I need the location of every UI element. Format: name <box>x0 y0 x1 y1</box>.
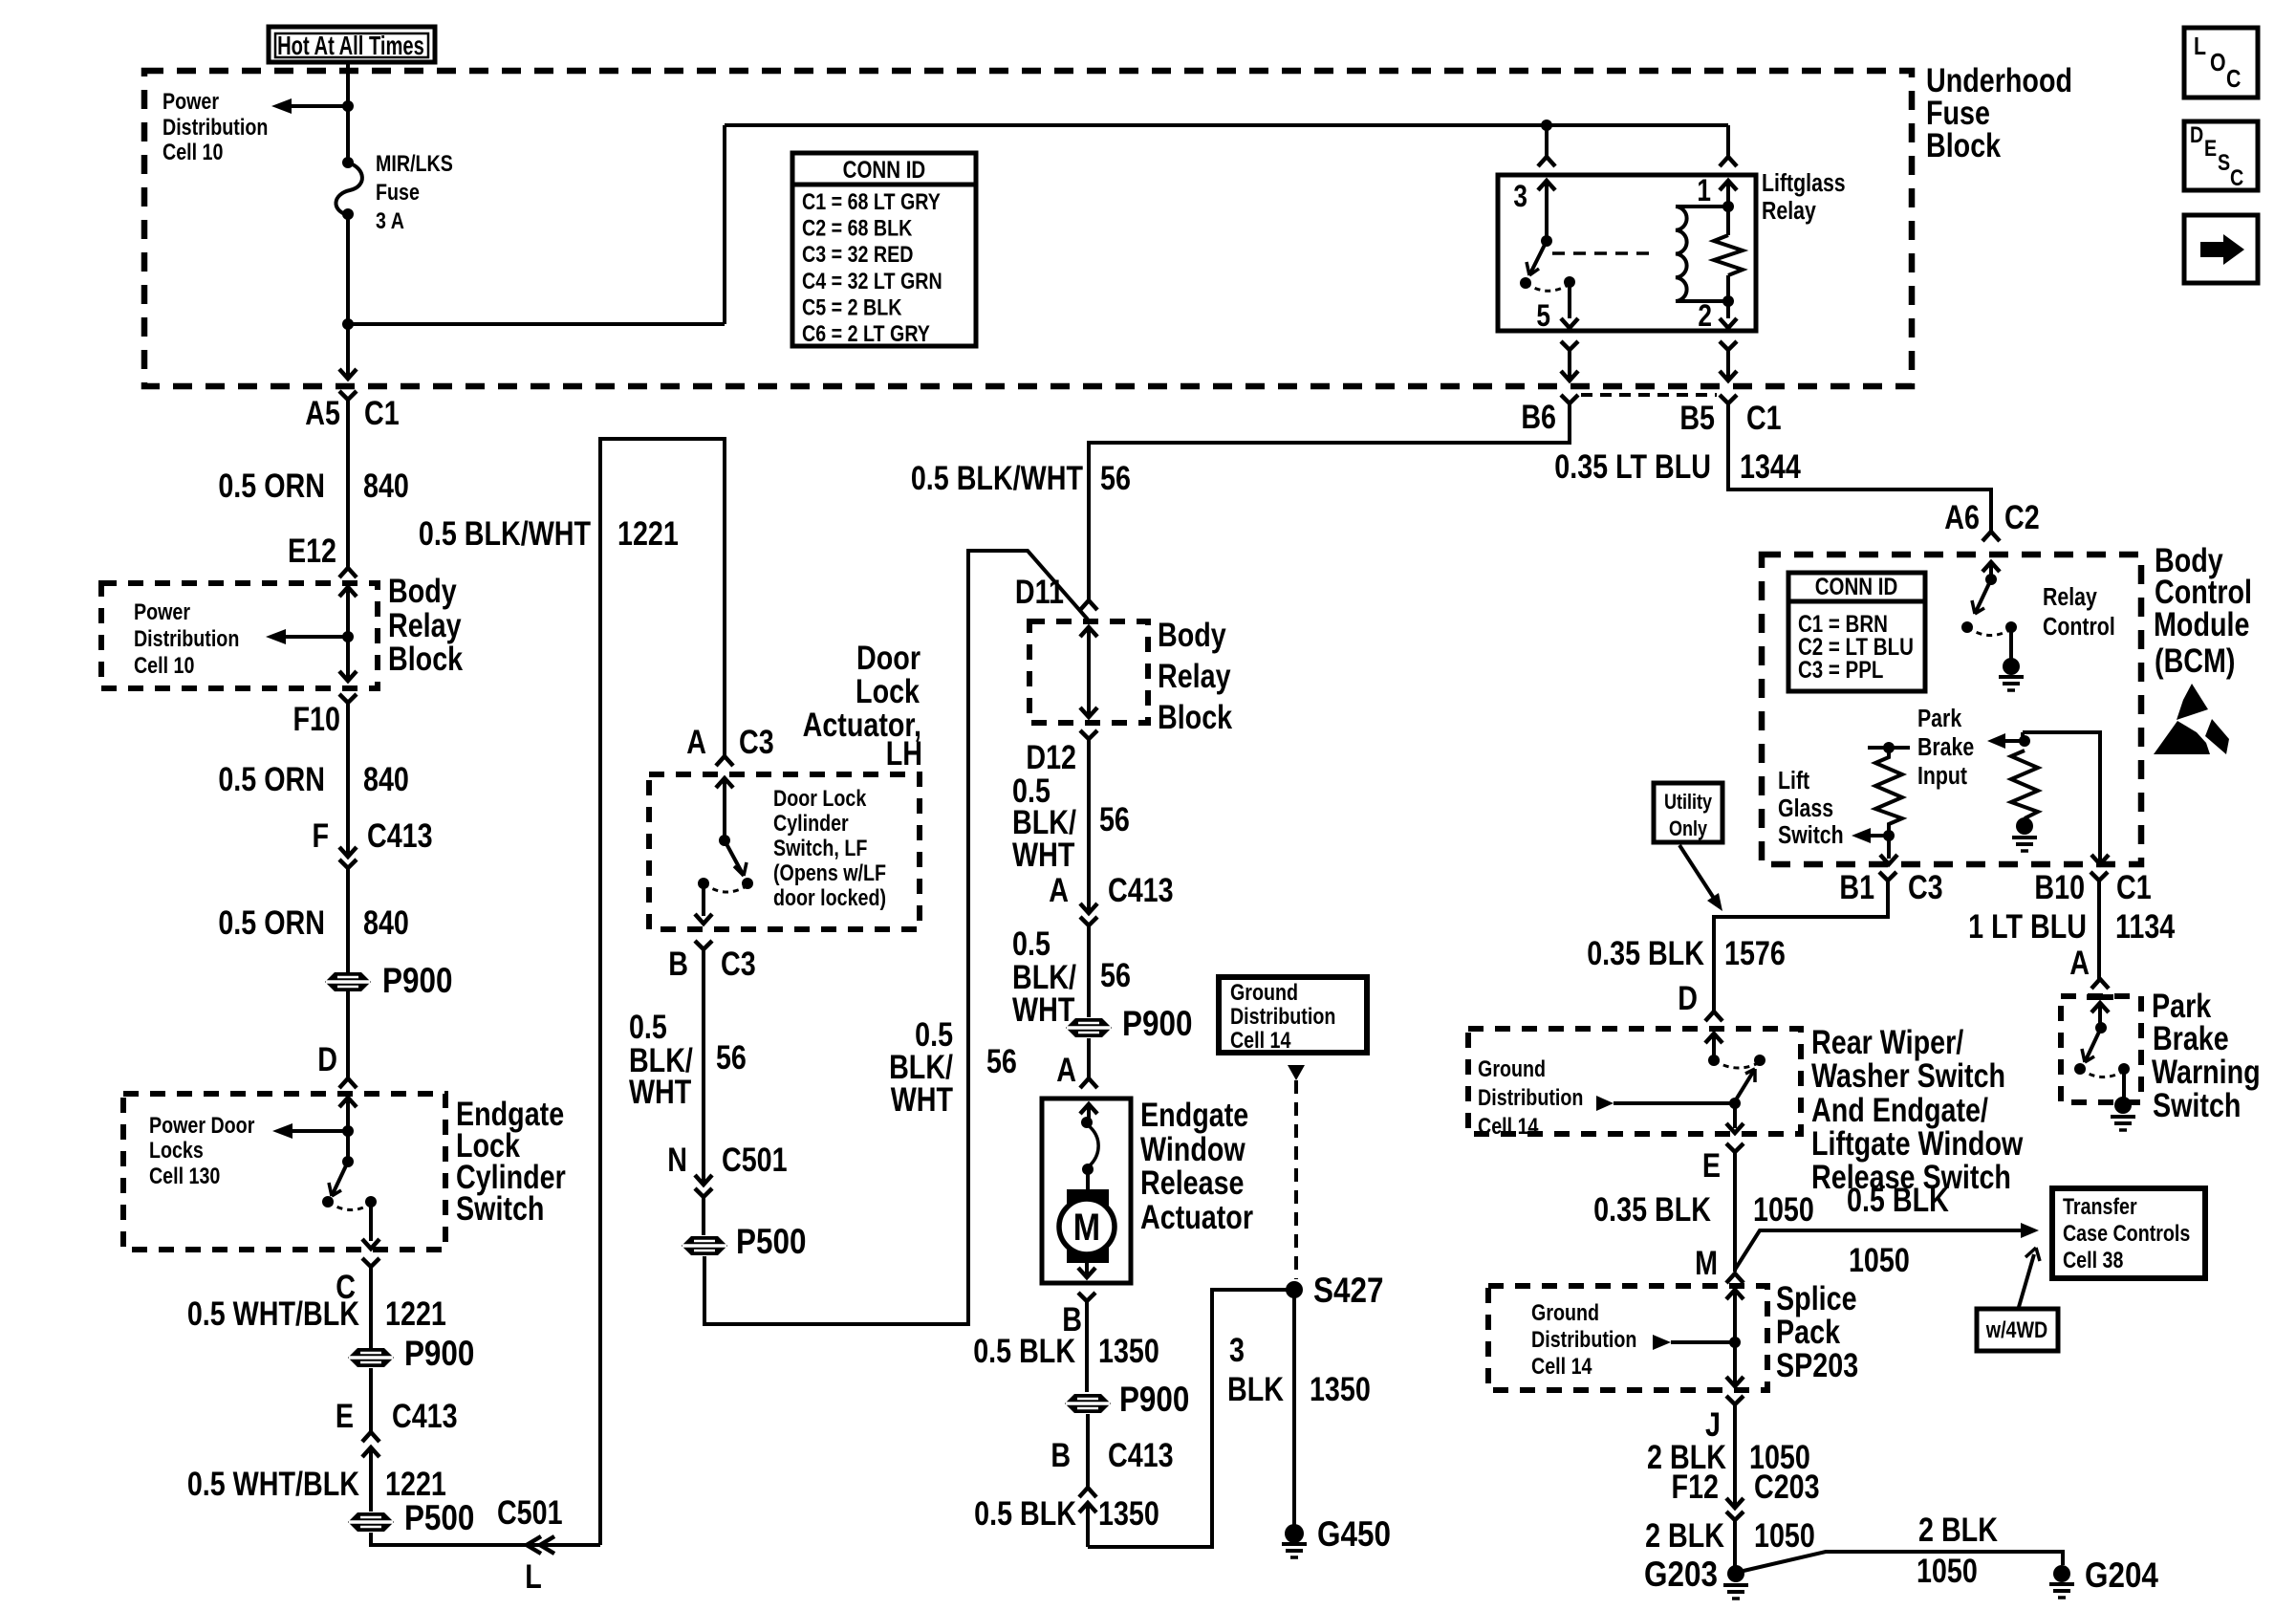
svg-text:Ground: Ground <box>1230 979 1298 1005</box>
svg-text:0.5 BLK: 0.5 BLK <box>1847 1181 1949 1218</box>
svg-text:F: F <box>312 816 329 854</box>
svg-text:WHT: WHT <box>1012 836 1075 873</box>
svg-text:door locked): door locked) <box>773 884 886 910</box>
svg-text:A: A <box>1049 871 1069 908</box>
svg-text:1221: 1221 <box>385 1465 446 1502</box>
svg-text:Liftgate Window: Liftgate Window <box>1811 1124 2023 1162</box>
svg-text:B: B <box>668 945 688 982</box>
svg-text:MIR/LKS: MIR/LKS <box>376 150 453 176</box>
svg-text:Cell 14: Cell 14 <box>1230 1027 1291 1053</box>
svg-text:Switch: Switch <box>2153 1086 2241 1123</box>
svg-text:D11: D11 <box>1015 573 1064 610</box>
svg-text:(Opens w/LF: (Opens w/LF <box>773 859 886 885</box>
svg-text:0.5 WHT/BLK: 0.5 WHT/BLK <box>187 1465 359 1502</box>
svg-text:L: L <box>2194 33 2206 61</box>
svg-text:840: 840 <box>363 903 409 941</box>
svg-text:A: A <box>2069 944 2090 981</box>
svg-text:C203: C203 <box>1754 1468 1820 1505</box>
svg-text:E: E <box>336 1397 354 1434</box>
svg-text:1576: 1576 <box>1724 934 1786 971</box>
svg-text:2: 2 <box>1698 300 1712 334</box>
svg-text:Distribution: Distribution <box>1230 1003 1335 1029</box>
svg-text:C2: C2 <box>2004 498 2040 535</box>
svg-text:Cell 130: Cell 130 <box>149 1163 220 1188</box>
svg-text:1350: 1350 <box>1098 1494 1159 1532</box>
svg-text:B6: B6 <box>1521 398 1556 435</box>
svg-text:Park: Park <box>1917 705 1962 733</box>
svg-text:A6: A6 <box>1944 498 1980 535</box>
svg-text:1134: 1134 <box>2115 907 2175 945</box>
svg-text:0.5 ORN: 0.5 ORN <box>218 903 325 941</box>
svg-text:SP203: SP203 <box>1776 1346 1858 1383</box>
svg-text:C6 = 2 LT GRY: C6 = 2 LT GRY <box>802 320 930 346</box>
svg-text:C1 = 68 LT GRY: C1 = 68 LT GRY <box>802 188 941 214</box>
svg-text:WHT: WHT <box>891 1080 954 1118</box>
svg-text:Distribution: Distribution <box>162 114 268 140</box>
svg-text:D: D <box>317 1040 337 1077</box>
svg-text:P900: P900 <box>1122 1005 1192 1044</box>
svg-text:C3: C3 <box>721 945 756 982</box>
svg-text:P900: P900 <box>382 962 452 1001</box>
svg-text:Fuse: Fuse <box>376 179 420 205</box>
svg-text:D12: D12 <box>1026 738 1076 775</box>
svg-text:F12: F12 <box>1672 1468 1719 1505</box>
svg-text:C3 = PPL: C3 = PPL <box>1798 656 1883 683</box>
svg-text:0.35 BLK: 0.35 BLK <box>1593 1190 1711 1228</box>
svg-text:0.5 BLK/WHT: 0.5 BLK/WHT <box>911 459 1084 496</box>
svg-text:S427: S427 <box>1313 1272 1383 1311</box>
svg-text:w/4WD: w/4WD <box>1985 1316 2047 1342</box>
svg-text:E: E <box>1702 1146 1721 1184</box>
svg-text:C501: C501 <box>722 1141 788 1178</box>
svg-text:(BCM): (BCM) <box>2155 642 2235 679</box>
svg-text:1050: 1050 <box>1754 1516 1815 1554</box>
svg-text:1050: 1050 <box>1849 1241 1910 1278</box>
svg-text:LH: LH <box>886 734 922 772</box>
svg-text:56: 56 <box>986 1042 1017 1079</box>
svg-text:0.5 BLK: 0.5 BLK <box>974 1494 1076 1532</box>
svg-text:Actuator: Actuator <box>1140 1198 1253 1235</box>
svg-text:Window: Window <box>1140 1130 1245 1167</box>
svg-text:3: 3 <box>1229 1331 1245 1368</box>
svg-text:C4 = 32 LT GRN: C4 = 32 LT GRN <box>802 268 942 294</box>
svg-text:Block: Block <box>1158 698 1232 735</box>
svg-text:G450: G450 <box>1317 1515 1391 1555</box>
svg-text:56: 56 <box>716 1038 747 1076</box>
svg-text:Input: Input <box>1917 762 1967 791</box>
svg-text:1 LT BLU: 1 LT BLU <box>1968 907 2087 945</box>
svg-text:1350: 1350 <box>1098 1332 1159 1369</box>
svg-text:C413: C413 <box>1108 1436 1174 1473</box>
svg-text:Door Lock: Door Lock <box>773 785 867 811</box>
svg-text:Locks: Locks <box>149 1137 204 1163</box>
svg-text:Liftglass: Liftglass <box>1762 169 1846 198</box>
svg-text:1: 1 <box>1697 175 1711 208</box>
svg-text:1050: 1050 <box>1753 1190 1814 1228</box>
svg-text:56: 56 <box>1100 459 1131 496</box>
svg-text:Rear Wiper/: Rear Wiper/ <box>1811 1023 1963 1060</box>
svg-text:Relay: Relay <box>388 606 462 643</box>
svg-text:C2 = 68 BLK: C2 = 68 BLK <box>802 215 912 241</box>
svg-text:CONN ID: CONN ID <box>843 156 926 183</box>
svg-text:Pack: Pack <box>1776 1313 1840 1350</box>
svg-text:0.35 BLK: 0.35 BLK <box>1587 934 1704 971</box>
svg-text:0.35 LT BLU: 0.35 LT BLU <box>1554 447 1711 485</box>
svg-text:C413: C413 <box>392 1397 458 1434</box>
svg-text:C3: C3 <box>1908 868 1943 905</box>
svg-text:0.5: 0.5 <box>629 1008 667 1045</box>
svg-text:Hot At All Times: Hot At All Times <box>277 32 424 61</box>
svg-text:Power Door: Power Door <box>149 1112 255 1138</box>
svg-text:5: 5 <box>1536 300 1550 334</box>
svg-text:2 BLK: 2 BLK <box>1645 1516 1724 1554</box>
svg-text:56: 56 <box>1100 956 1131 993</box>
svg-text:Utility: Utility <box>1664 791 1713 814</box>
svg-text:B10: B10 <box>2034 868 2085 905</box>
svg-text:Block: Block <box>388 640 463 677</box>
svg-text:Power: Power <box>134 598 190 624</box>
svg-text:O: O <box>2210 49 2226 77</box>
svg-text:Ground: Ground <box>1531 1299 1599 1325</box>
svg-text:Switch, LF: Switch, LF <box>773 835 867 860</box>
svg-text:Cell 38: Cell 38 <box>2063 1247 2123 1273</box>
svg-text:C1: C1 <box>364 394 400 431</box>
svg-text:M: M <box>1073 1205 1100 1248</box>
svg-text:Distribution: Distribution <box>134 625 239 651</box>
svg-text:Washer Switch: Washer Switch <box>1811 1056 2005 1094</box>
svg-text:Release: Release <box>1140 1164 1244 1201</box>
svg-text:A: A <box>686 723 706 760</box>
svg-text:Lock: Lock <box>856 672 920 709</box>
svg-text:Power: Power <box>162 88 219 114</box>
svg-text:1050: 1050 <box>1917 1552 1978 1589</box>
svg-text:Cell 14: Cell 14 <box>1531 1353 1592 1379</box>
svg-text:Cell 10: Cell 10 <box>134 652 194 678</box>
svg-text:S: S <box>2218 149 2230 175</box>
svg-text:C: C <box>2230 164 2243 190</box>
svg-text:P500: P500 <box>404 1499 474 1538</box>
svg-text:Relay: Relay <box>1158 657 1231 694</box>
svg-text:0.5 WHT/BLK: 0.5 WHT/BLK <box>187 1295 359 1332</box>
svg-text:D: D <box>1678 979 1698 1016</box>
svg-text:3 A: 3 A <box>376 207 404 233</box>
svg-text:Distribution: Distribution <box>1478 1084 1583 1110</box>
svg-text:B5: B5 <box>1679 399 1715 436</box>
svg-text:P500: P500 <box>736 1223 806 1262</box>
svg-text:Splice: Splice <box>1776 1279 1857 1316</box>
svg-text:2 BLK: 2 BLK <box>1918 1511 1998 1548</box>
svg-text:C1: C1 <box>1746 399 1782 436</box>
svg-text:Transfer: Transfer <box>2063 1193 2137 1219</box>
svg-text:1221: 1221 <box>617 514 679 552</box>
svg-text:B1: B1 <box>1839 868 1874 905</box>
svg-text:Brake: Brake <box>1917 733 1974 762</box>
svg-text:P900: P900 <box>1119 1381 1189 1420</box>
svg-text:WHT: WHT <box>1012 990 1075 1028</box>
svg-text:Cell 10: Cell 10 <box>162 139 223 164</box>
svg-text:840: 840 <box>363 467 409 504</box>
svg-text:C413: C413 <box>367 816 433 854</box>
svg-text:Distribution: Distribution <box>1531 1326 1636 1352</box>
svg-text:A: A <box>1056 1051 1076 1088</box>
svg-text:And Endgate/: And Endgate/ <box>1811 1091 1988 1128</box>
svg-text:G204: G204 <box>2085 1556 2158 1596</box>
svg-text:C: C <box>2226 65 2241 94</box>
svg-text:0.5 BLK: 0.5 BLK <box>973 1332 1075 1369</box>
svg-text:Brake: Brake <box>2153 1019 2229 1056</box>
svg-text:M: M <box>1695 1244 1718 1281</box>
svg-text:Relay: Relay <box>1762 197 1817 226</box>
svg-text:Case Controls: Case Controls <box>2063 1220 2190 1246</box>
svg-text:E12: E12 <box>288 532 336 569</box>
svg-text:CONN ID: CONN ID <box>1815 573 1898 599</box>
svg-text:Switch: Switch <box>456 1189 544 1227</box>
svg-text:Module: Module <box>2154 605 2249 642</box>
svg-text:Block: Block <box>1926 126 2001 163</box>
svg-text:C3: C3 <box>739 723 774 760</box>
svg-text:Control: Control <box>2043 613 2115 642</box>
svg-text:1344: 1344 <box>1740 447 1801 485</box>
svg-text:B: B <box>1051 1436 1071 1473</box>
svg-text:Endgate: Endgate <box>1140 1096 1248 1133</box>
svg-text:Cylinder: Cylinder <box>773 810 849 836</box>
svg-text:L: L <box>525 1557 542 1595</box>
svg-text:0.5 ORN: 0.5 ORN <box>218 760 325 797</box>
svg-text:N: N <box>667 1141 687 1178</box>
svg-text:C3 = 32 RED: C3 = 32 RED <box>802 241 913 267</box>
svg-text:E: E <box>2204 135 2217 161</box>
svg-text:G203: G203 <box>1644 1556 1718 1595</box>
svg-text:0.5 ORN: 0.5 ORN <box>218 467 325 504</box>
svg-text:D: D <box>2190 121 2203 147</box>
svg-text:BLK: BLK <box>1227 1370 1284 1407</box>
svg-text:C501: C501 <box>497 1493 563 1531</box>
svg-text:Glass: Glass <box>1778 794 1833 823</box>
svg-text:F10: F10 <box>293 700 340 737</box>
svg-text:1221: 1221 <box>385 1295 446 1332</box>
svg-text:1350: 1350 <box>1310 1370 1371 1407</box>
svg-text:0.5: 0.5 <box>1012 925 1051 962</box>
svg-text:840: 840 <box>363 760 409 797</box>
svg-text:A5: A5 <box>305 394 340 431</box>
svg-text:WHT: WHT <box>629 1073 692 1110</box>
svg-text:Door: Door <box>856 639 921 676</box>
svg-text:Warning: Warning <box>2152 1053 2261 1090</box>
svg-text:Ground: Ground <box>1478 1055 1546 1081</box>
svg-text:0.5 BLK/WHT: 0.5 BLK/WHT <box>419 514 592 552</box>
svg-text:C413: C413 <box>1108 871 1174 908</box>
svg-text:Cell 14: Cell 14 <box>1478 1113 1539 1139</box>
svg-text:C5 = 2 BLK: C5 = 2 BLK <box>802 294 902 320</box>
svg-text:3: 3 <box>1513 181 1527 214</box>
svg-text:Switch: Switch <box>1778 821 1844 850</box>
svg-text:Body: Body <box>388 572 457 609</box>
svg-text:Body: Body <box>1158 616 1226 653</box>
svg-text:56: 56 <box>1099 800 1130 838</box>
svg-text:Only: Only <box>1669 817 1708 840</box>
svg-text:C1: C1 <box>2116 868 2152 905</box>
svg-text:Lift: Lift <box>1778 767 1809 795</box>
svg-text:Relay: Relay <box>2043 583 2098 612</box>
svg-text:P900: P900 <box>404 1335 474 1374</box>
